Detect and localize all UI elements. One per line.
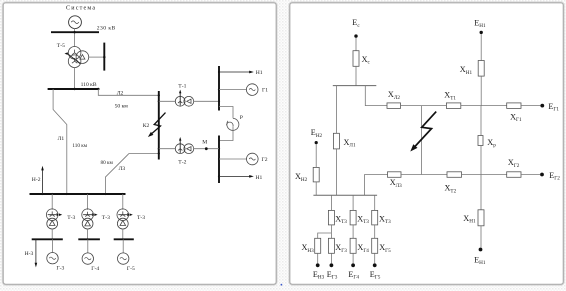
node ЕГ4 terminal — [351, 263, 355, 267]
reactance ХЛ1 — [333, 133, 339, 149]
svg-text:Г-3: Г-3 — [56, 265, 64, 271]
busbar 110kV section (vertical) — [158, 91, 160, 160]
wire ЕН2 to ХН2 — [315, 144, 317, 167]
right panel frame — [290, 3, 564, 285]
busbar 110kV — [48, 88, 100, 90]
reactance ХН1 top — [478, 61, 484, 77]
svg-text:Г-4: Г-4 — [91, 266, 99, 272]
wire ХН2 to lower bar — [315, 182, 317, 195]
transformer Т-3 (first) — [46, 194, 62, 239]
wire ХЛ2 to ХТ1 — [401, 105, 447, 107]
branch T3-3 — [374, 195, 376, 210]
svg-text:Т-3: Т-3 — [137, 215, 145, 221]
reactance ХТ2 — [447, 172, 462, 178]
node M — [205, 147, 208, 150]
node ЕГ3 terminal — [330, 263, 334, 267]
short-circuit bolt — [414, 112, 436, 148]
busbar gen G-3 — [32, 238, 63, 240]
busbar 230kV — [51, 31, 99, 33]
reactance ХГ1 — [507, 103, 521, 109]
load H1 bottom arrow — [219, 175, 251, 177]
wire split to ХН3 — [318, 225, 332, 238]
svg-text:80 км: 80 км — [101, 160, 114, 166]
node on 230kV bus — [73, 31, 75, 33]
busbar gen G-4 — [78, 238, 100, 240]
svg-text:Т-3: Т-3 — [67, 215, 75, 221]
transformer T-5 (three-winding) — [68, 47, 88, 68]
T-1 regulation arrow — [179, 93, 181, 106]
svg-text:Г-5: Г-5 — [127, 266, 135, 272]
reactance ХТ3 first — [328, 210, 334, 225]
svg-text:50 км: 50 км — [115, 103, 129, 109]
node ЕГ5 terminal — [373, 263, 377, 267]
generator Г-4 — [87, 239, 89, 253]
T-5 regulation arrow — [66, 54, 80, 64]
transformer T-2 — [175, 144, 193, 154]
svg-text:Т-1: Т-1 — [178, 84, 186, 90]
wire row2 to ХН1 bottom — [480, 175, 482, 210]
generator Г-5 — [122, 239, 124, 253]
stray blue dot — [281, 284, 283, 286]
wire bus to G1 — [219, 89, 247, 91]
reactance Хс — [353, 51, 359, 67]
wire node bar to row1 — [365, 86, 387, 106]
wire row2 corner to lower bar — [365, 175, 388, 196]
svg-text:К2: К2 — [143, 123, 150, 129]
svg-text:Л2: Л2 — [117, 90, 124, 96]
reactance ХГ5 — [372, 238, 378, 253]
reactance ХТ3 third — [372, 210, 378, 225]
generator Г2 — [247, 153, 259, 165]
branch T3-1 — [330, 195, 332, 210]
wire bus to G2 — [219, 158, 247, 160]
wire T-5 to 110kV bus — [74, 68, 76, 90]
reactance ХГ4 — [350, 238, 356, 253]
svg-text:Л3: Л3 — [119, 166, 126, 172]
wire Ес to Хс — [355, 38, 357, 51]
wire ХН3 to ЕН3 — [317, 253, 319, 263]
wire ХЛ3 to ХТ2 — [401, 174, 447, 176]
wire ХГ1 to ЕГ1 — [521, 105, 540, 107]
reactance ХН2 — [313, 167, 319, 182]
transformer Т-3 (second) — [82, 194, 98, 239]
svg-text:Т-3: Т-3 — [102, 215, 110, 221]
svg-text:М: М — [202, 140, 207, 146]
node ЕН2 terminal — [315, 141, 318, 144]
load H1 top arrow — [219, 71, 251, 73]
svg-text:Система: Система — [66, 6, 96, 12]
node ЕН1 terminal bottom — [479, 248, 483, 252]
wire T-5 tertiary — [89, 56, 105, 58]
svg-text:Т-2: Т-2 — [178, 160, 186, 166]
wire line L1 — [53, 89, 67, 194]
system source G — [69, 16, 82, 29]
node ЕГ2 terminal — [540, 173, 544, 177]
wire ХН1 to ЕН1 bottom — [480, 226, 482, 248]
wire ХГ2 to ЕГ2 — [521, 174, 540, 176]
busbar gen lower section — [218, 136, 220, 184]
wire Хс to node bar — [355, 66, 357, 85]
svg-text:Р: Р — [240, 115, 243, 121]
wire ХЛ1 to lower node bar — [335, 149, 337, 195]
generator Г-3 — [52, 239, 54, 252]
wire T-1 to right bus — [194, 100, 219, 102]
reactance ХЛ3 — [388, 172, 402, 178]
node on 110kV bus — [73, 88, 75, 90]
reactance Хр — [478, 136, 483, 146]
branch T3-2 — [352, 195, 354, 210]
node ЕН1 terminal top — [480, 31, 483, 34]
svg-text:Н-2: Н-2 — [32, 177, 41, 183]
svg-text:Н1: Н1 — [256, 70, 263, 76]
node ЕН3 terminal — [316, 263, 320, 267]
svg-text:Л1: Л1 — [58, 136, 65, 142]
generator Г1 — [246, 84, 258, 96]
wire bus to T-2 — [159, 148, 176, 150]
node junctions gen bus — [218, 71, 220, 178]
wire ХТ3 to ХГ4 — [352, 225, 354, 238]
wire node bar to ХЛ1 — [335, 86, 337, 134]
wire system to 230kV bus — [74, 28, 76, 47]
reactor P symbol — [227, 118, 239, 130]
reactance ХЛ2 — [387, 103, 401, 109]
wire ЕН1 to ХН1 — [480, 34, 482, 60]
svg-text:Т-5: Т-5 — [57, 43, 65, 49]
wire T-2 to right bus — [194, 148, 219, 150]
wire row1 to Хр — [480, 106, 482, 136]
load H-3 arrow — [35, 239, 37, 263]
reactance ХТ3 second — [350, 210, 356, 225]
wire ХТ3 to ХГ5 — [374, 225, 376, 238]
node ЕГ1 terminal — [540, 104, 544, 108]
wire line L3 — [105, 154, 158, 195]
svg-text:Н-3: Н-3 — [25, 251, 34, 257]
svg-text:110 км: 110 км — [72, 143, 87, 149]
wire ХТ1 to ХГ1 — [461, 105, 507, 107]
reactance ХН1 bottom — [478, 210, 484, 226]
wire ХГ4 to ЕГ4 — [352, 253, 354, 263]
wire ХГ5 to ЕГ5 — [374, 253, 376, 263]
transformer T-1 — [175, 96, 193, 106]
busbar tertiary — [103, 43, 105, 71]
node bar upper — [333, 85, 377, 87]
reactance ХТ1 — [446, 103, 460, 109]
wire ХТ2 to ХГ2 — [462, 174, 507, 176]
node L2 start — [97, 88, 99, 90]
load H-2 arrow — [42, 170, 44, 195]
busbar gen upper section — [218, 66, 220, 111]
svg-text:Г1: Г1 — [262, 88, 268, 94]
wire Хр to row2 — [480, 146, 482, 175]
T-2 regulation arrow — [179, 140, 181, 153]
svg-text:Г2: Г2 — [262, 157, 268, 163]
reactor P loop — [219, 107, 233, 119]
wire ХГ3 to ЕГ3 — [330, 253, 332, 263]
svg-text:110 кВ: 110 кВ — [81, 82, 97, 88]
svg-text:230 кВ: 230 кВ — [97, 25, 116, 31]
transformer Т-3 (third) — [117, 194, 133, 239]
wire line L2 — [98, 89, 159, 95]
busbar 10kV main — [30, 193, 126, 195]
node junctions 10kV bus — [41, 193, 124, 195]
fault branch vertical — [421, 106, 423, 175]
left panel frame — [3, 3, 276, 285]
node Ес terminal — [354, 34, 357, 37]
reactance ХГ3 — [328, 238, 334, 253]
busbar gen G-5 — [114, 238, 134, 240]
svg-text:Н1: Н1 — [256, 175, 263, 181]
node junctions left section bus — [158, 94, 160, 154]
wire bus to T-1 — [159, 100, 176, 102]
wire ХН1 to row1 — [480, 76, 482, 106]
reactance ХГ2 — [507, 172, 521, 178]
short-circuit K2 bolt — [151, 113, 166, 135]
node bar lower — [313, 194, 377, 196]
reactance ХН3 — [315, 238, 321, 253]
